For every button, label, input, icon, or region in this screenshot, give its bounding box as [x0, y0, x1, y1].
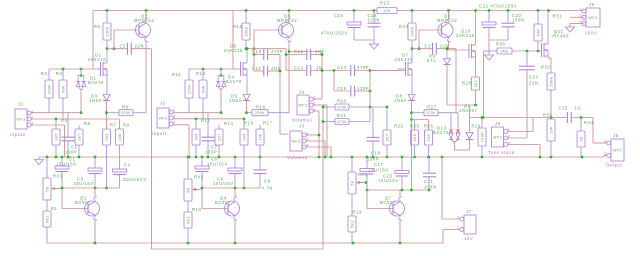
capacitor C5	[128, 43, 132, 55]
wire C15 left	[334, 71, 351, 92]
svg-text:C17: C17	[374, 162, 384, 167]
mosfet Q11	[542, 43, 549, 57]
capacitor C24	[519, 66, 535, 70]
label Q10	[456, 29, 475, 39]
junction R24 bottom node	[411, 47, 414, 50]
wire C8 leads	[234, 157, 236, 188]
capacitor C9	[254, 170, 267, 174]
junction ground bus x=414.5	[413, 156, 416, 159]
svg-text:R21: R21	[337, 113, 347, 118]
svg-text:WF3: WF3	[299, 104, 308, 108]
svg-text:2: 2	[457, 225, 460, 230]
svg-text:470P: 470P	[357, 65, 369, 70]
junction top rail x=107	[106, 9, 109, 12]
svg-text:WF3: WF3	[292, 140, 301, 144]
resistor R27	[424, 105, 438, 116]
capacitor C2	[62, 137, 75, 141]
wire Q7 collector down	[399, 221, 401, 244]
junction C15 right	[369, 90, 372, 93]
svg-text:R6: R6	[94, 24, 101, 29]
junction ground bus x=367	[366, 156, 369, 159]
wire R9 pins	[119, 119, 121, 157]
wire bus to J5 pin2	[604, 156, 607, 158]
junction R3 top	[55, 118, 58, 121]
transistor Q5	[279, 18, 294, 42]
capacitor C11	[264, 66, 268, 77]
junction node C20/Q7 emitter	[401, 189, 404, 192]
wire R1 bottom pin	[46, 227, 48, 243]
svg-text:J7: J7	[466, 209, 472, 214]
junction R29 top	[481, 116, 484, 119]
junction R7 node line	[105, 187, 108, 190]
junction ground bus x=429	[428, 156, 431, 159]
label D2	[88, 53, 107, 63]
svg-text:R12: R12	[201, 118, 211, 123]
connector J6 200V	[579, 2, 600, 36]
wire R8 leads	[107, 112, 147, 114]
svg-text:22N: 22N	[529, 81, 539, 86]
svg-text:J2: J2	[160, 101, 166, 106]
resistor R30	[497, 48, 512, 54]
svg-text:R34: R34	[584, 120, 594, 125]
svg-text:R28: R28	[462, 81, 472, 86]
junction C12 right	[321, 53, 324, 56]
wire Q5 collector down	[288, 42, 290, 113]
svg-text:470U/250V: 470U/250V	[321, 31, 348, 36]
wire J3 pin2	[306, 141, 325, 157]
label D1	[88, 76, 104, 86]
junction R20 right	[369, 106, 372, 109]
wire C13 right	[311, 70, 351, 72]
svg-text:4N7: 4N7	[315, 49, 325, 54]
svg-text:1N60: 1N60	[229, 98, 242, 103]
wire J7 pin1 net	[442, 157, 460, 219]
svg-text:R33: R33	[543, 113, 553, 118]
wire stage2 node line	[202, 187, 260, 189]
svg-text:470K: 470K	[337, 120, 347, 124]
svg-text:WF3: WF3	[493, 136, 502, 140]
resistor R12	[192, 118, 211, 145]
label D9	[427, 54, 436, 64]
svg-text:C5: C5	[120, 44, 127, 49]
svg-text:MPSA42: MPSA42	[437, 18, 457, 23]
junction R21 left	[322, 120, 325, 123]
resistor R31	[534, 24, 542, 41]
wire RV2 to R10	[187, 201, 189, 212]
junction top rail x=548.5	[547, 9, 550, 12]
junction top rail x=448.5	[447, 9, 450, 12]
label Q5	[277, 14, 297, 24]
resistor R21	[335, 113, 349, 125]
svg-text:J5: J5	[613, 133, 619, 138]
svg-text:J4: J4	[299, 90, 305, 95]
wire D2 gate lead	[93, 68, 100, 70]
junction node C8/Q4 emitter	[234, 187, 237, 190]
svg-text:R31: R31	[553, 14, 563, 19]
wire D7 gate lead	[370, 69, 405, 71]
junction D6/R18/R16 node	[245, 111, 248, 114]
wire R20 leads	[323, 106, 387, 108]
capacitor C6 label	[207, 157, 228, 167]
svg-text:3: 3	[173, 119, 176, 124]
wire R17 pins	[259, 125, 261, 157]
wire R14 pins	[218, 125, 220, 157]
svg-text:R18: R18	[256, 105, 266, 110]
trimmer RV2	[184, 175, 204, 202]
svg-text:R17: R17	[263, 121, 273, 126]
svg-text:C11: C11	[252, 66, 261, 71]
resistor R19	[348, 216, 356, 232]
svg-text:MPSA42: MPSA42	[277, 18, 297, 23]
connector J2 input	[152, 101, 176, 137]
junction ground bus x=219	[218, 156, 221, 159]
junction top rail x=489	[488, 9, 491, 12]
junction ground bus x=196	[195, 156, 198, 159]
wire tone pin1 net	[508, 118, 533, 132]
wire C17 right lead	[436, 49, 456, 113]
diode D6	[243, 95, 250, 101]
resistor R10	[184, 212, 192, 228]
svg-text:Volume1: Volume1	[292, 118, 313, 123]
label D7	[395, 53, 414, 63]
svg-text:2K7: 2K7	[218, 133, 222, 141]
transistor Q4	[225, 197, 240, 221]
svg-text:BC557: BC557	[380, 200, 396, 205]
wire C18 leads	[373, 11, 375, 41]
junction ground bus x=235	[234, 156, 237, 159]
junction D3/R8/R7 node	[105, 111, 108, 114]
wire Q10 drain	[475, 11, 477, 46]
capacitor C15 labels	[337, 86, 369, 91]
svg-text:100N: 100N	[512, 18, 525, 23]
svg-text:2: 2	[173, 113, 176, 118]
junction top rail x=146	[145, 9, 148, 12]
junction R13 top	[202, 68, 205, 71]
svg-text:100K: 100K	[550, 76, 554, 86]
junction gate node	[369, 69, 372, 72]
junction ground bus x=482	[481, 156, 484, 159]
junction ground bus x=442	[441, 156, 444, 159]
svg-text:1N60: 1N60	[394, 98, 407, 103]
capacitor C18	[368, 23, 381, 27]
label D9 part number	[459, 104, 478, 114]
capacitor C22 label	[479, 4, 517, 9]
dual diode D10	[449, 130, 460, 143]
wire divider node line	[470, 117, 594, 119]
svg-text:C15: C15	[337, 86, 347, 91]
junction node RV2/C6	[201, 187, 204, 190]
junction ground bus x=373	[372, 156, 375, 159]
resistor R20	[335, 99, 349, 111]
wire Q2 emitter to rail	[145, 11, 147, 19]
svg-text:2K7: 2K7	[386, 134, 390, 142]
junction top rail x=354	[353, 9, 356, 12]
wire R30 right gate line	[512, 50, 542, 52]
junction D4 top	[220, 68, 223, 71]
svg-text:330U/6V3: 330U/6V3	[123, 177, 147, 182]
svg-text:2SK216: 2SK216	[395, 57, 414, 62]
wire C23 leads	[507, 11, 509, 41]
transistor Q9	[438, 18, 453, 42]
svg-text:4K5: 4K5	[105, 133, 109, 141]
svg-text:BAV70: BAV70	[88, 80, 104, 85]
svg-text:1: 1	[579, 6, 582, 11]
mosfet D7	[406, 62, 413, 76]
label R19	[353, 210, 363, 215]
junction bottom rail x=235	[234, 242, 237, 245]
junction C13 right	[321, 69, 324, 72]
svg-text:2SK216: 2SK216	[88, 57, 107, 62]
junction C24 top	[526, 50, 529, 53]
wire R6 pins	[106, 11, 108, 49]
capacitor C10 labels	[252, 49, 283, 54]
svg-text:BC557: BC557	[75, 200, 91, 205]
junction R25 R26 feed	[410, 118, 413, 121]
wire D5 drain	[246, 49, 248, 63]
capacitor C6	[195, 166, 209, 172]
junction ground bus x=402	[401, 156, 404, 159]
junction top rail x=246	[245, 9, 248, 12]
svg-text:C4: C4	[124, 163, 131, 168]
svg-text:R8: R8	[122, 105, 129, 110]
wire Q4 collector down	[234, 221, 236, 244]
junction ground bus x=428.5	[427, 156, 430, 159]
wire R13 pins	[202, 69, 204, 119]
wire R27 leads	[412, 112, 459, 114]
mosfet D2	[101, 62, 108, 76]
junction bottom rail x=95	[94, 242, 97, 245]
wire Q2 collector down to R8	[145, 42, 147, 113]
transistor Q7	[390, 197, 405, 221]
capacitor C18 labels	[368, 13, 381, 23]
capacitor C17 labels	[368, 162, 389, 173]
junction bottom rail x=400	[399, 242, 402, 245]
wire R26 pins	[428, 146, 430, 157]
capacitor C17 labels	[425, 44, 450, 49]
svg-text:-12V: -12V	[462, 236, 473, 241]
wire R7 pins	[106, 145, 108, 188]
capacitor C23	[502, 23, 515, 27]
svg-text:J8: J8	[495, 121, 501, 126]
svg-text:5T1: 5T1	[427, 58, 436, 63]
wire stage3 ecap leads	[366, 157, 368, 190]
svg-text:3M3: 3M3	[500, 49, 508, 53]
junction node RV1/C1	[61, 187, 64, 190]
svg-text:470P: 470P	[271, 49, 283, 54]
svg-text:C14: C14	[337, 65, 347, 70]
junction R16 node line	[243, 187, 246, 190]
svg-text:R20: R20	[337, 99, 347, 104]
wire Q11 drain	[547, 11, 549, 45]
svg-text:R26: R26	[424, 124, 434, 129]
resistor R3	[52, 118, 68, 145]
wire C12 left	[286, 49, 307, 70]
wire RV2 top pin	[187, 157, 189, 179]
resistor R17	[256, 121, 273, 146]
junction ground bus x=582	[581, 156, 584, 159]
wire C11 left	[254, 49, 264, 71]
wire Q4 emitter up	[234, 188, 236, 197]
junction D1 top	[80, 68, 83, 71]
transistor Q1	[85, 197, 100, 221]
svg-text:BAV70: BAV70	[433, 130, 449, 135]
resistor R32	[547, 73, 555, 90]
wire R2 pins	[48, 69, 50, 113]
wire R34 pins	[580, 118, 582, 158]
wire J2 pin2 net	[173, 118, 244, 120]
junction D8/R27 node	[410, 111, 413, 114]
wire Q1 emitter up	[94, 188, 96, 197]
svg-text:10K: 10K	[427, 133, 431, 141]
svg-text:1K5: 1K5	[55, 133, 59, 141]
wire R24 pins	[411, 11, 413, 49]
label Q9	[437, 14, 457, 24]
svg-text:1U: 1U	[575, 106, 582, 111]
resistor R4	[56, 71, 67, 98]
svg-text:C12: C12	[294, 49, 304, 54]
svg-text:4K5: 4K5	[243, 133, 247, 141]
junction top rail x=412	[411, 9, 414, 12]
svg-text:R24: R24	[399, 24, 409, 29]
wire Q7 emitter up	[399, 190, 401, 197]
wire R28 bottom pin	[475, 90, 477, 105]
svg-text:470K: 470K	[337, 105, 347, 109]
svg-text:R9: R9	[123, 123, 130, 128]
junction Q5 base corner	[253, 47, 256, 50]
junction ground bus x=189	[188, 156, 191, 159]
wire C15 right	[355, 90, 370, 92]
svg-text:Output: Output	[606, 163, 623, 168]
wire ground bus	[39, 156, 604, 158]
capacitor C16	[347, 22, 361, 28]
svg-text:2SK216: 2SK216	[456, 33, 475, 38]
junction R32 bottom node	[550, 116, 553, 119]
capacitor C1 labels	[56, 157, 77, 167]
junction top rail x=475.5	[474, 9, 477, 12]
connector J4 volume1	[292, 90, 316, 123]
junction R20 left	[322, 106, 325, 109]
label D8	[394, 94, 407, 104]
junction R28 bottom/D9	[474, 104, 477, 107]
svg-text:100K: 100K	[411, 26, 415, 36]
svg-text:R13: R13	[196, 71, 206, 76]
wire C4 leads	[119, 157, 121, 188]
wire C1 leads	[61, 157, 63, 188]
mosfet D5	[241, 62, 248, 76]
svg-text:100K: 100K	[106, 26, 110, 36]
svg-text:C9: C9	[264, 179, 271, 184]
wire D7 source	[411, 75, 413, 94]
ground symbol J6	[566, 27, 575, 32]
svg-text:22N: 22N	[135, 44, 145, 49]
svg-text:5K: 5K	[187, 187, 191, 192]
wire D1 bottom to pin1 net	[80, 90, 82, 113]
capacitor C16b	[360, 169, 374, 175]
svg-text:R4: R4	[56, 71, 63, 76]
wire C10 left	[254, 54, 264, 56]
svg-text:Volume2: Volume2	[287, 155, 308, 160]
wire stage1 fb to stage3	[152, 107, 324, 249]
junction ground bus x=387	[386, 156, 389, 159]
wire R11 pins	[188, 69, 190, 113]
wire R2 R4 top rail	[49, 68, 93, 70]
capacitor C7 labels	[205, 145, 218, 155]
svg-text:100N: 100N	[424, 185, 437, 190]
junction C14 left node	[333, 69, 336, 72]
connector J5 output	[604, 133, 624, 168]
capacitor C14 labels	[337, 65, 369, 70]
capacitor C19 labels	[367, 151, 381, 162]
svg-text:100P: 100P	[65, 150, 77, 155]
wire C3 leads	[94, 157, 96, 188]
capacitor C21 labels	[424, 179, 437, 190]
svg-text:Input2: Input2	[10, 132, 26, 137]
wire stage1 node line	[62, 187, 120, 189]
wire base node row	[107, 30, 139, 49]
junction D5 drain	[246, 47, 249, 50]
label Q2	[134, 14, 154, 24]
resistor R24	[399, 23, 416, 40]
label R1	[51, 206, 58, 211]
capacitor C20 labels	[378, 174, 399, 184]
wire Q4 base	[202, 188, 228, 209]
svg-text:4K5: 4K5	[413, 134, 417, 142]
wire R10 bottom pin	[187, 228, 189, 243]
junction R34 top	[580, 116, 583, 119]
svg-text:10K: 10K	[259, 133, 263, 141]
wire D7 drain	[411, 49, 413, 63]
svg-text:5K1: 5K1	[187, 216, 191, 224]
svg-text:J6: J6	[589, 2, 595, 7]
label Q11	[552, 29, 570, 39]
wire C10 right	[268, 54, 280, 56]
svg-text:10U/16V: 10U/16V	[207, 162, 228, 167]
junction C12 left	[285, 53, 288, 56]
svg-text:1N4007: 1N4007	[459, 108, 478, 113]
wire J2 pin3 net	[173, 125, 189, 157]
resistor R29	[472, 124, 487, 147]
capacitor C17	[433, 43, 437, 55]
wire Q5 emitter to rail	[288, 11, 290, 19]
wire J6 pin3 gnd	[570, 24, 584, 28]
svg-text:BAV70: BAV70	[226, 79, 242, 84]
svg-text:R11: R11	[172, 72, 181, 77]
svg-text:10K: 10K	[550, 126, 554, 134]
trimmer RV3	[348, 172, 368, 194]
label R32	[541, 65, 551, 70]
svg-text:2K2: 2K2	[474, 80, 478, 88]
wire D9 bottom	[447, 65, 476, 105]
capacitor C7	[202, 137, 215, 141]
junction bottom rail x=188	[187, 242, 190, 245]
wire RV2 wiper	[199, 188, 203, 190]
label Q1	[75, 196, 91, 206]
svg-text:R2: R2	[41, 71, 48, 76]
wire R28 node down to D11	[469, 105, 471, 132]
junction Q2 base corner	[113, 47, 116, 50]
wire bottom rail	[47, 230, 460, 244]
wire C2 leads	[67, 113, 69, 157]
svg-text:100R: 100R	[481, 132, 485, 142]
wire D2 drain	[106, 49, 108, 63]
wire D3 down to R7	[106, 101, 108, 130]
svg-text:1K: 1K	[580, 136, 584, 141]
wire D4 bottom to pin1 net	[220, 90, 222, 113]
wire D10 D11 bottoms	[455, 140, 470, 151]
wire C7 leads	[207, 113, 209, 157]
wire R3 pins	[55, 119, 57, 157]
junction R12 top	[195, 118, 198, 121]
